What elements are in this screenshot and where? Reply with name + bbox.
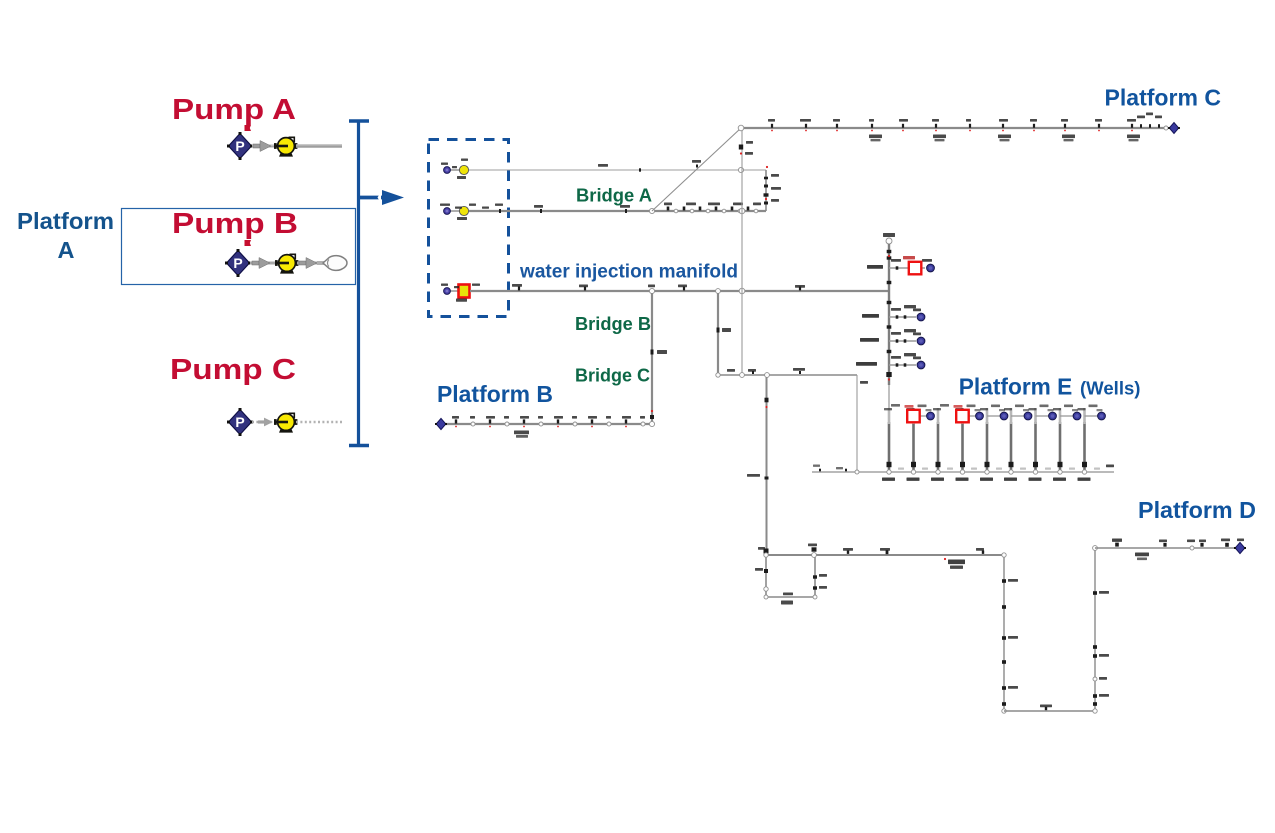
well riser 6 Platform E	[1004, 405, 1029, 481]
wire Pump C suction (dotted)	[252, 421, 278, 424]
wire S1 to riser (thin line y=170)	[469, 164, 740, 172]
node corner (1004,711)	[1002, 709, 1006, 713]
branch wire y=317	[862, 305, 921, 319]
node corner (1004,555)	[1002, 553, 1006, 557]
flag marker on Pump A source	[245, 125, 252, 131]
svg-text:Pump C: Pump C	[170, 354, 296, 386]
node before sink	[1164, 126, 1168, 130]
well riser 2 Platform E	[905, 405, 932, 481]
riser node cluster on Bridge A	[664, 203, 761, 213]
wire Platform D riser up x=1095	[1093, 548, 1109, 711]
valve (red square) well 4	[956, 410, 969, 423]
node manifold junction (718,291)	[716, 289, 721, 294]
svg-text:Platform B: Platform B	[437, 381, 553, 407]
wire thin vertical x=857	[857, 375, 868, 471]
wire Pump A discharge	[296, 145, 342, 146]
wire Pump B suction	[250, 262, 278, 265]
wellhead sink 4 (blue circle)	[976, 412, 984, 420]
flow arrow Pump A	[253, 141, 271, 152]
node (767,375)	[765, 373, 770, 378]
svg-text:Platform D: Platform D	[1138, 497, 1256, 523]
svg-text:Bridge C: Bridge C	[575, 366, 650, 386]
wire manifold trunk x=889	[886, 244, 891, 408]
dashed box (injection pump group)	[429, 140, 509, 317]
node manifold crossing (742,291)	[739, 288, 745, 294]
sink well injector (921,365)	[917, 361, 925, 369]
pump Pump C	[274, 413, 297, 432]
wire Bridge A pipeline	[469, 205, 766, 213]
selection box around Pump B	[122, 209, 356, 285]
bracket (Platform A collector)	[349, 120, 369, 447]
wire thin vertical x=742	[741, 130, 743, 375]
svg-text:Platform E: Platform E	[959, 374, 1073, 400]
wellhead sink 6 (blue circle)	[1024, 412, 1032, 420]
well riser 5 Platform E	[980, 405, 1005, 481]
well riser 4 Platform E	[954, 405, 981, 481]
valve (red square) well 2	[907, 410, 920, 423]
loop sub-circuit at Platform D feed	[755, 555, 827, 605]
wellhead sink 8 (blue circle)	[1073, 412, 1081, 420]
node Platform B / Bridge B junction	[649, 421, 654, 426]
node trunk top (889,241)	[883, 233, 895, 244]
sink Platform C (blue diamond)	[1168, 123, 1180, 134]
branch wire y=341	[860, 329, 921, 343]
well riser 8 Platform E	[1053, 405, 1078, 481]
wire Platform D export y=548	[1095, 539, 1244, 561]
node (857,472) thin riser junction	[855, 470, 859, 474]
svg-text:water injection manifold: water injection manifold	[519, 262, 738, 283]
source S3 (manifold injection source)	[441, 284, 480, 302]
wire (741,170)-(766,170)	[743, 166, 768, 170]
flow arrow Pump C	[258, 418, 273, 427]
node (742,375)	[740, 373, 745, 378]
node corner (1095,548)	[1093, 546, 1098, 551]
branch wire y=268 with valve	[867, 256, 932, 270]
wire Platform C pipeline	[741, 113, 1168, 142]
wire Platform B pipeline	[444, 416, 652, 438]
svg-text:Platform: Platform	[17, 208, 114, 234]
wellhead sink 2 (blue circle)	[927, 412, 935, 420]
svg-text:Pump B: Pump B	[172, 208, 298, 240]
source S1 (top injection source)	[441, 159, 469, 180]
wire Platform D trunk y=555	[758, 544, 1004, 569]
flow arrow Pump B discharge	[299, 258, 317, 269]
well riser 9 Platform E	[1078, 405, 1103, 481]
wire horizontal y=375	[718, 368, 857, 375]
svg-text:Pump A: Pump A	[172, 94, 296, 126]
node Platform C start (741,128)	[738, 125, 753, 155]
node Bridge A diagonal junction	[649, 208, 654, 213]
pump Pump A	[274, 137, 297, 156]
sink well injector (921,317)	[917, 313, 925, 321]
pump Pump B	[275, 254, 298, 273]
sink well injector (921,341)	[917, 337, 925, 345]
wire Platform E gathering line y=472	[812, 465, 1114, 473]
source S2 (Bridge A source)	[440, 204, 503, 221]
well riser 7 Platform E	[1029, 405, 1054, 481]
svg-text:(Wells): (Wells)	[1080, 379, 1141, 399]
svg-text:Bridge A: Bridge A	[576, 186, 652, 206]
svg-text:A: A	[58, 237, 75, 263]
wire Pump C discharge (dotted)	[296, 421, 343, 423]
node at (742,211)	[739, 208, 745, 214]
well riser 3 Platform E	[931, 404, 949, 481]
svg-text:Platform C: Platform C	[1105, 85, 1222, 111]
wire riser (766,170)-(766,211)	[764, 170, 782, 211]
node corner (1095,711)	[1093, 709, 1097, 713]
svg-text:Bridge B: Bridge B	[575, 314, 651, 334]
wellhead sink 7 (blue circle)	[1049, 412, 1057, 420]
wire Pump B discharge	[297, 262, 325, 265]
node at (741,170)	[738, 167, 743, 172]
wire diagonal riser to Platform C	[652, 128, 741, 211]
valve (red square) on branch y=268	[909, 262, 922, 275]
wire Bridge B vertical x=652	[650, 293, 667, 424]
source P (Pump C inlet diamond)	[227, 408, 253, 436]
wire Pump A suction	[252, 144, 278, 148]
source P (Pump B inlet diamond)	[225, 249, 251, 277]
node (718,375)	[716, 373, 720, 377]
flag marker on Pump B source	[245, 240, 252, 246]
wellhead sink 5 (blue circle)	[1000, 412, 1008, 420]
wire Platform D feed vertical x=766	[747, 377, 769, 555]
choke/nozzle at Pump B outlet	[317, 256, 347, 271]
wire water injection manifold (y=291)	[470, 284, 888, 291]
wire Platform D riser down x=1004	[1002, 555, 1018, 711]
svg-text:P: P	[233, 255, 242, 271]
branch wire y=365	[856, 353, 921, 367]
flow arrow Pump B suction	[252, 258, 270, 269]
node loop right (814,555)	[812, 553, 817, 558]
node manifold/BridgeB junction (652,291)	[649, 288, 654, 293]
sink Platform D (blue diamond)	[1234, 542, 1246, 553]
arrow Platform A to manifold	[360, 190, 404, 205]
wire Platform D bottom y=711	[1004, 705, 1095, 712]
wellhead sink 9 (blue circle)	[1098, 412, 1106, 420]
sink Platform B (blue diamond)	[435, 418, 447, 429]
sink well injector (930,268)	[927, 264, 935, 272]
svg-text:P: P	[235, 138, 244, 154]
well riser 1 Platform E	[882, 404, 900, 481]
svg-text:P: P	[235, 414, 244, 430]
source P (Pump A inlet diamond)	[227, 132, 253, 160]
node loop left (766,555)	[764, 553, 768, 557]
wire Bridge C vertical x=718	[717, 293, 732, 375]
